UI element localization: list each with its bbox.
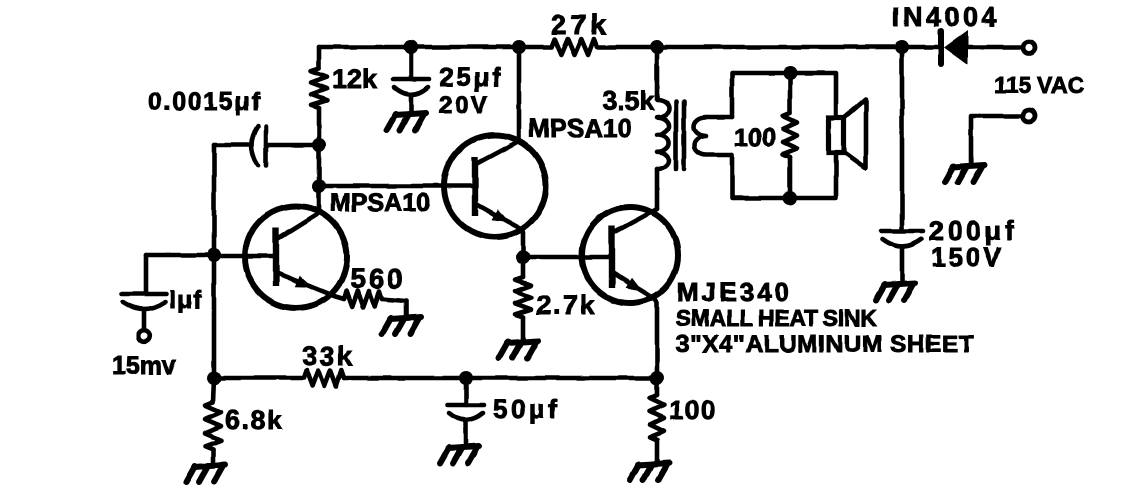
svg-text:2.7k: 2.7k xyxy=(536,290,597,320)
svg-text:3.5k: 3.5k xyxy=(602,86,656,116)
svg-text:150V: 150V xyxy=(931,242,1004,272)
svg-text:560: 560 xyxy=(350,263,406,294)
svg-text:27k: 27k xyxy=(551,9,610,40)
svg-text:3"X4"ALUMINUM SHEET: 3"X4"ALUMINUM SHEET xyxy=(676,331,974,358)
svg-text:15mv: 15mv xyxy=(112,352,176,380)
svg-text:33k: 33k xyxy=(302,341,355,371)
svg-text:100: 100 xyxy=(734,124,776,152)
svg-text:Iμf: Iμf xyxy=(169,286,203,314)
svg-text:0.0015μf: 0.0015μf xyxy=(148,88,262,116)
svg-text:MJE340: MJE340 xyxy=(677,277,792,307)
svg-text:MPSA10: MPSA10 xyxy=(528,113,632,143)
svg-text:115 VAC: 115 VAC xyxy=(994,72,1084,98)
svg-text:IN4004: IN4004 xyxy=(892,2,1000,32)
svg-text:12k: 12k xyxy=(332,64,378,94)
svg-text:20V: 20V xyxy=(439,92,490,119)
svg-text:SMALL HEAT SINK: SMALL HEAT SINK xyxy=(676,305,877,331)
svg-text:25μf: 25μf xyxy=(439,62,503,92)
svg-text:6.8k: 6.8k xyxy=(225,405,284,435)
svg-text:100: 100 xyxy=(669,395,717,425)
svg-text:50μf: 50μf xyxy=(493,394,561,424)
svg-text:MPSA10: MPSA10 xyxy=(330,189,430,217)
